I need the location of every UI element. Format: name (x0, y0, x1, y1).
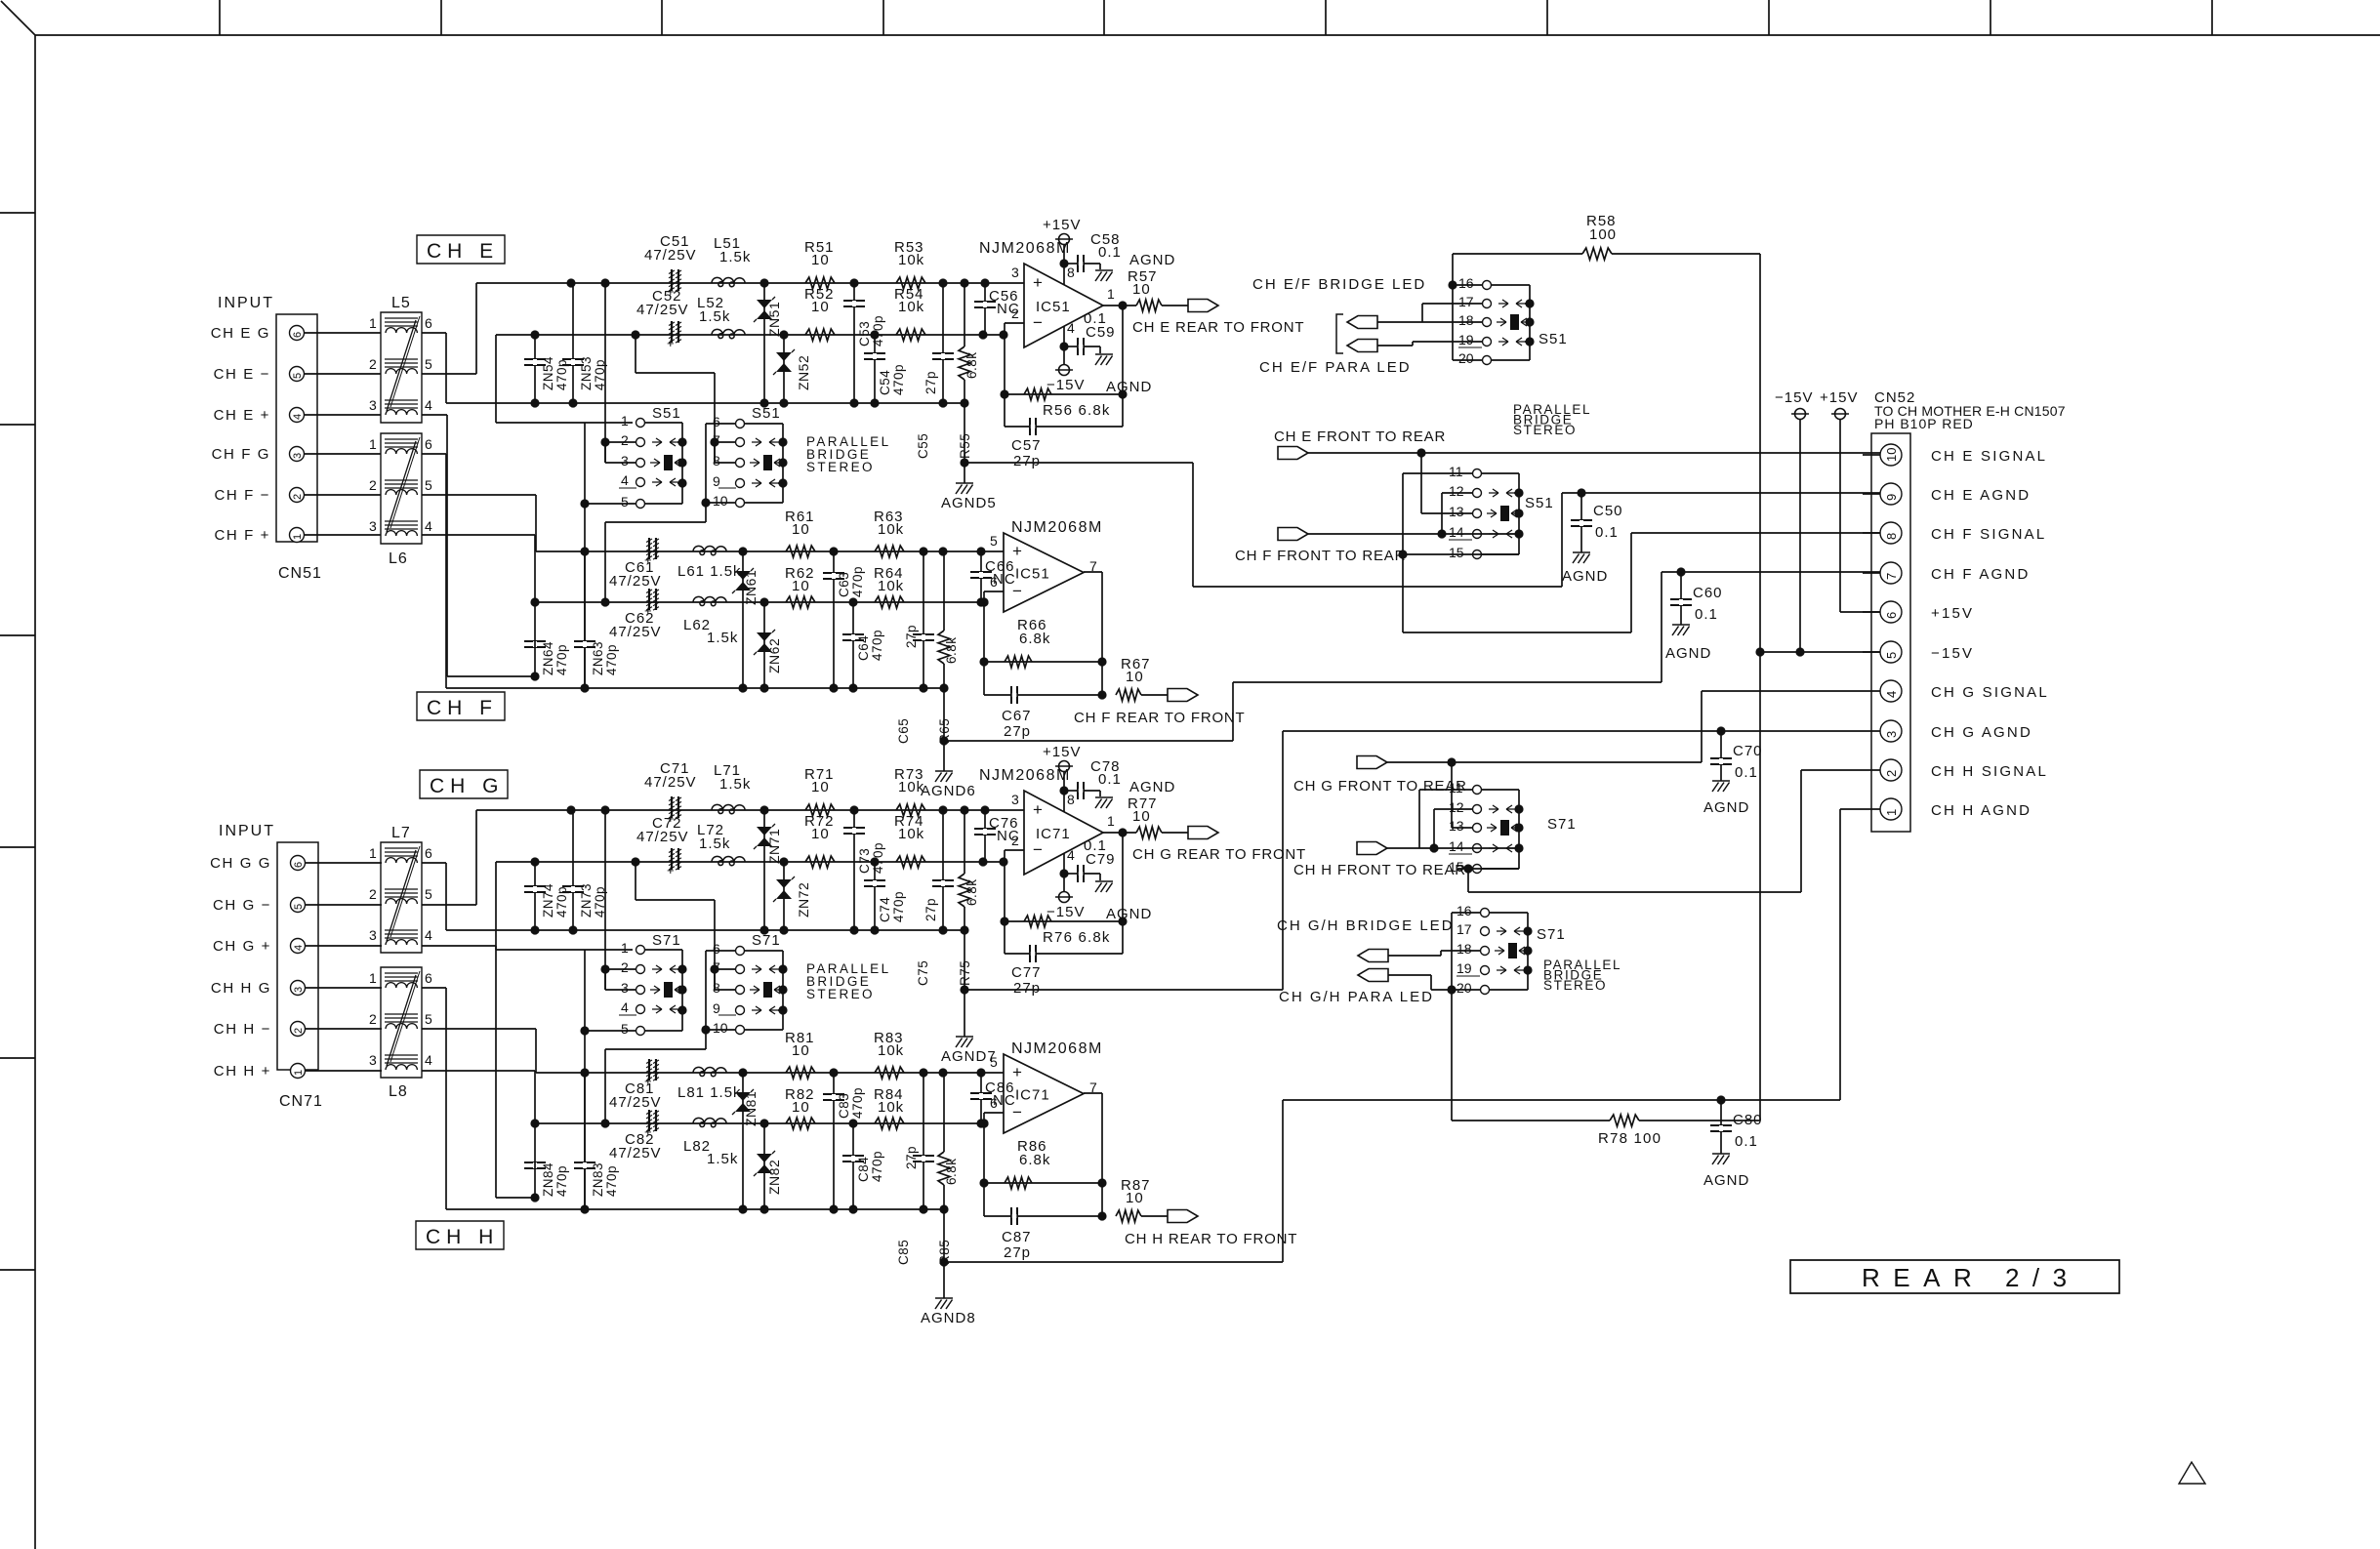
net flag CH G/H BRIDGE LED (1358, 950, 1388, 962)
svg-text:+: + (667, 336, 675, 350)
svg-text:470p: 470p (554, 359, 569, 390)
svg-text:10: 10 (792, 521, 810, 538)
S51 pin4 underline (619, 487, 636, 489)
resistor R85 (943, 1073, 945, 1152)
junctions ground bus (530, 925, 968, 934)
wire edge row2 (677, 441, 682, 443)
border tick (219, 0, 221, 35)
wire pin7 row (1662, 571, 1880, 573)
wire to pin8 CH F SIGNAL (1403, 533, 1880, 632)
svg-text:10: 10 (1132, 808, 1151, 825)
border tick (0, 1057, 35, 1059)
junction pin4 (1059, 869, 1068, 877)
resistor R52 (805, 329, 835, 341)
wire pin7 row (715, 441, 735, 443)
svg-text:1: 1 (292, 534, 304, 540)
wire to flag (1162, 305, 1188, 306)
wire +15V to pin6 (1840, 420, 1880, 612)
svg-text:CH H −: CH H − (214, 1021, 271, 1038)
svg-text:S71: S71 (1537, 926, 1566, 943)
svg-text:AGND: AGND (1129, 252, 1175, 268)
wire C78 to gnd (1084, 791, 1100, 796)
capacitor C52 (667, 321, 681, 350)
CN52 pin 10 (1880, 444, 1902, 466)
wire ground bus CH F (446, 687, 944, 689)
wire CN G pin to bus (422, 988, 446, 1209)
wire C53 (853, 283, 855, 403)
svg-text:1.5k: 1.5k (707, 630, 738, 646)
svg-text:INPUT: INPUT (218, 295, 274, 311)
resistor R77 (1136, 827, 1162, 838)
svg-text:13: 13 (1449, 504, 1464, 519)
switch S71 contacts 1-5 (636, 946, 685, 1036)
wire C70 leg (1720, 731, 1722, 781)
svg-text:CH F G: CH F G (212, 446, 270, 463)
wire CN pin6 to bus (422, 333, 446, 403)
zener pair ZN52 (773, 349, 795, 375)
wire bracket down to next block top rail (584, 1031, 586, 1209)
wire switch feed from top rail (604, 283, 606, 463)
svg-text:470p: 470p (871, 842, 885, 874)
wire switch bracket 6-10 (705, 951, 707, 1030)
svg-text:5: 5 (425, 886, 432, 902)
capacitor C56 (974, 301, 996, 308)
wire G/H bridge led flag (1388, 951, 1480, 956)
border frame top (35, 34, 2380, 36)
svg-text:9: 9 (713, 1000, 720, 1016)
wire mid rail CH G (496, 861, 1005, 863)
S51 pin14 underline (1449, 539, 1472, 541)
wire CN minus pin to top rail (422, 495, 536, 551)
svg-text:6.8k: 6.8k (1019, 1152, 1050, 1168)
svg-text:CH G +: CH G + (213, 938, 271, 955)
wire CN G pin to bus (422, 454, 446, 688)
svg-text:CH F SIGNAL: CH F SIGNAL (1931, 526, 2046, 543)
svg-text:5: 5 (293, 904, 305, 910)
S71 pin4 underline (619, 1014, 636, 1016)
junction output (1118, 828, 1127, 836)
power +15V terminal (1059, 234, 1070, 245)
wire pin2 row (605, 968, 636, 970)
ground AGND (1095, 354, 1113, 365)
svg-text:19: 19 (1458, 332, 1474, 347)
svg-text:5: 5 (990, 1054, 998, 1070)
wire +15V to pin8 (1063, 771, 1065, 812)
wire R76 row (1005, 920, 1123, 922)
svg-text:6: 6 (713, 941, 720, 957)
svg-text:C63: C63 (837, 572, 851, 597)
wire to AGND6 (943, 688, 945, 771)
svg-text:C60: C60 (1693, 585, 1723, 601)
zener pair ZN61 (732, 568, 754, 593)
CN71 pin 2 (291, 1022, 306, 1037)
svg-text:3: 3 (369, 518, 377, 534)
svg-text:−15V: −15V (1046, 904, 1085, 920)
svg-text:C67: C67 (1002, 708, 1032, 724)
svg-text:1: 1 (621, 413, 629, 428)
svg-text:S51: S51 (752, 405, 781, 422)
capacitor C80 (1710, 1124, 1732, 1132)
capacitor C70 (1710, 757, 1732, 765)
svg-text:3: 3 (369, 397, 377, 413)
svg-text:10k: 10k (898, 826, 924, 842)
wire row11 (1403, 472, 1472, 474)
wire pin2 row (605, 441, 636, 443)
wire ZN51 (763, 283, 765, 403)
resistor R87 (1116, 1210, 1141, 1222)
op-amp IC71 (NJM2068M) (990, 1054, 1097, 1133)
capacitor C72 (667, 848, 681, 877)
svg-text:CH G REAR TO FRONT: CH G REAR TO FRONT (1132, 846, 1306, 863)
svg-text:1: 1 (1884, 809, 1899, 816)
S71 pin19 underline (1457, 975, 1480, 977)
junction S71 fr edge (1514, 804, 1523, 852)
CN52 pin 1 (1880, 798, 1902, 820)
junction feedback left (979, 657, 988, 666)
svg-text:6.8k: 6.8k (944, 1158, 959, 1185)
connector CN52 (1871, 433, 1910, 832)
svg-text:11: 11 (1449, 464, 1463, 479)
resistor R84 (875, 1118, 904, 1129)
ground AGND (1095, 797, 1113, 808)
wire R78 row (1452, 990, 1610, 1121)
svg-text:6: 6 (1884, 612, 1899, 619)
svg-text:NJM2068M: NJM2068M (979, 240, 1071, 257)
svg-text:C74: C74 (878, 897, 892, 922)
svg-text:8: 8 (1067, 792, 1075, 807)
svg-text:CH G AGND: CH G AGND (1931, 724, 2032, 741)
wire rail2 to switch pin1 (496, 862, 633, 950)
resistor R58 (1582, 248, 1612, 260)
junction S71 led bracket (1447, 985, 1456, 994)
wire C87 row (984, 1215, 1102, 1217)
wire row12 jog (1442, 493, 1472, 534)
resistor R57 (1136, 300, 1162, 311)
svg-text:6: 6 (425, 315, 432, 331)
wire ZN53 (572, 283, 574, 403)
wire riser to upper-channel plus pin (422, 946, 535, 1198)
svg-text:15: 15 (1449, 545, 1464, 560)
svg-text:C59: C59 (1086, 324, 1116, 341)
svg-text:C57: C57 (1011, 437, 1042, 454)
wire R58 row (1453, 254, 1582, 285)
junction row14 S71 (1429, 843, 1438, 852)
ground AGND (C80) (1712, 1154, 1730, 1164)
svg-text:3: 3 (293, 987, 305, 993)
svg-text:−: − (1033, 313, 1043, 332)
switch S71 contacts 6-10 (736, 947, 785, 1035)
wire C58 to gnd (1084, 264, 1100, 269)
capacitor C79 (1077, 865, 1085, 882)
wire row15 (1403, 553, 1519, 555)
wire feedback left leg (1004, 335, 1005, 427)
resistor R83 (875, 1067, 904, 1079)
svg-text:0.1: 0.1 (1735, 1133, 1758, 1150)
svg-text:47/25V: 47/25V (609, 573, 662, 590)
wire -input jog (984, 591, 1004, 602)
svg-text:2: 2 (621, 959, 629, 975)
CN52 pin 8 (1880, 522, 1902, 544)
svg-text:CH E: CH E (427, 240, 499, 263)
wire CN52 pin stub (1863, 454, 1880, 456)
svg-text:5: 5 (1884, 652, 1899, 659)
svg-text:CH E FRONT TO REAR: CH E FRONT TO REAR (1274, 428, 1446, 445)
op-amp IC51 (NJM2068M) (1011, 264, 1115, 347)
wire C66 (980, 551, 982, 602)
svg-text:4: 4 (425, 927, 432, 943)
wire CN71 pin 1 (306, 1070, 383, 1072)
svg-text:6: 6 (293, 862, 305, 868)
junction C50 (1577, 488, 1585, 497)
capacitor C67 (1010, 686, 1018, 704)
svg-text:0.1: 0.1 (1098, 771, 1122, 788)
junctions ground bus (530, 398, 968, 407)
svg-text:10: 10 (792, 578, 810, 594)
junction fr edge (1514, 488, 1523, 538)
svg-text:27p: 27p (923, 371, 938, 394)
junction feedback left (1000, 917, 1008, 925)
wire CN51 pin 5 (305, 373, 382, 375)
block label box CH F (417, 692, 505, 720)
svg-text:5: 5 (425, 356, 432, 372)
svg-text:CH F AGND: CH F AGND (1931, 566, 2030, 583)
wire C83 (833, 1073, 835, 1209)
junction led bracket (1448, 280, 1457, 289)
junction output leg (1097, 1178, 1106, 1220)
svg-text:19: 19 (1457, 960, 1472, 976)
capacitor C87 (1010, 1207, 1018, 1225)
svg-text:L61 1.5k: L61 1.5k (677, 563, 742, 580)
svg-text:2: 2 (293, 1028, 305, 1034)
svg-text:STEREO: STEREO (806, 987, 875, 1001)
ground AGND6 (935, 771, 953, 782)
svg-text:20: 20 (1458, 350, 1474, 366)
resistor R72 (805, 856, 835, 868)
wire ZN62 (763, 602, 765, 688)
wire switch bracket 1-5 (584, 950, 586, 1031)
wire C67 row (984, 694, 1102, 696)
svg-text:3: 3 (369, 927, 377, 943)
connector CN51 (276, 314, 317, 542)
svg-text:AGND: AGND (1106, 379, 1152, 395)
resistor R61 (786, 546, 815, 557)
capacitor C51 (667, 269, 681, 299)
ground AGND (C50) (1573, 552, 1590, 563)
wire C73 (853, 810, 855, 930)
svg-text:27p: 27p (1013, 453, 1041, 469)
wire ZN54 (534, 335, 536, 403)
net flag CH E REAR TO FRONT (1188, 300, 1218, 312)
svg-text:IC51: IC51 (1036, 299, 1071, 315)
wire E AGND route (964, 463, 1562, 587)
wire mid rail CH F (535, 601, 984, 603)
svg-text:+: + (667, 863, 675, 877)
wire R58 to -15V rail (1612, 253, 1760, 255)
wire -15V to pin5 (1799, 420, 1801, 652)
border tick (1103, 0, 1105, 35)
svg-text:10: 10 (811, 826, 830, 842)
svg-text:5: 5 (621, 494, 629, 510)
inductor L61 (693, 546, 726, 554)
wire rail2 to group2 (636, 335, 715, 463)
svg-text:C54: C54 (878, 370, 892, 395)
svg-text:+15V: +15V (1820, 389, 1858, 406)
capacitor ZN54 (524, 358, 546, 366)
svg-text:14: 14 (1449, 838, 1464, 854)
svg-text:470p: 470p (554, 1165, 569, 1197)
wire g2 edge row9 (778, 482, 783, 484)
power -15V terminal (1059, 365, 1070, 376)
wire S71 led bracket (1431, 913, 1480, 990)
capacitor C50 (1571, 519, 1592, 527)
svg-text:10k: 10k (898, 299, 924, 315)
svg-text:AGND: AGND (1562, 568, 1608, 585)
wire pin7 row (715, 968, 735, 970)
junction S71 led edge (1523, 926, 1532, 974)
wire C84 (852, 1123, 854, 1209)
inductor L8 (common-mode choke) (381, 967, 422, 1078)
wire H FRONT line (1387, 847, 1519, 849)
wire CN minus pin to top rail (422, 1029, 536, 1073)
resistor R71 (805, 804, 835, 816)
svg-text:ZN73: ZN73 (579, 883, 594, 917)
wire R86 row (984, 1182, 1102, 1184)
svg-text:AGND6: AGND6 (921, 783, 976, 799)
wire pin3 row (605, 442, 636, 463)
CN71 pin 6 (291, 856, 306, 871)
inductor L5 (common-mode choke) (381, 312, 422, 423)
junction pin8 (1059, 786, 1068, 795)
junction AGND drop (960, 458, 968, 467)
wire feedback right leg (1122, 833, 1124, 954)
svg-text:L8: L8 (389, 1083, 408, 1100)
CN51 pin 2 (290, 488, 305, 503)
svg-text:CH G: CH G (430, 775, 505, 797)
wire C79 to gnd (1084, 874, 1100, 880)
wire rail2 to group2 (636, 862, 715, 990)
wire S71 row12 jog (1434, 809, 1472, 848)
border tick (0, 1269, 35, 1271)
capacitor C71 (667, 796, 681, 826)
wire bracket down to next block top rail (584, 504, 586, 688)
wire C64 (852, 602, 854, 688)
border frame corner diagonal (1, 1, 35, 35)
svg-text:7: 7 (1884, 573, 1899, 580)
wire S71 fr right edge (1482, 790, 1519, 869)
wire CN pin6 to bus (422, 863, 446, 930)
svg-text:CH E AGND: CH E AGND (1931, 487, 2031, 504)
junction output leg (1097, 657, 1106, 699)
wire ZN83 (584, 1073, 586, 1209)
CN51 pin 3 (290, 447, 305, 462)
junction minus jog (979, 597, 988, 606)
wire C65 (923, 551, 924, 688)
wire feedback right leg (1122, 306, 1124, 427)
wire CN51 pin 4 (305, 414, 382, 416)
wire ZN61 (742, 551, 744, 688)
border tick (1768, 0, 1770, 35)
svg-text:L6: L6 (389, 550, 408, 567)
svg-text:10: 10 (1126, 669, 1144, 685)
inductor L82 (693, 1118, 726, 1126)
svg-text:CN51: CN51 (278, 565, 322, 582)
svg-text:17: 17 (1457, 921, 1472, 937)
wire fr right edge (1482, 473, 1519, 554)
svg-text:NJM2068M: NJM2068M (1011, 519, 1103, 536)
wire C76 (984, 810, 986, 862)
wire ground bus CH G (446, 929, 964, 931)
wire CN52 pin stub (1863, 730, 1880, 732)
svg-text:470p: 470p (891, 891, 906, 922)
svg-text:NJM2068M: NJM2068M (1011, 1040, 1103, 1057)
wire CN52 pin stub (1863, 493, 1880, 495)
svg-text:CH E G: CH E G (211, 325, 270, 342)
wire CN52 pin stub (1863, 532, 1880, 534)
resistor R51 (805, 277, 835, 289)
svg-text:1: 1 (369, 436, 377, 452)
wire group1 right edge (645, 423, 682, 504)
wire CN51 pin 6 (305, 332, 382, 334)
junction group2 edge (778, 437, 787, 487)
svg-text:47/25V: 47/25V (644, 774, 697, 791)
wire G front to row13 (1452, 762, 1472, 828)
svg-text:470p: 470p (850, 566, 865, 597)
resistor R75 (964, 810, 965, 874)
junction bracket (580, 499, 589, 508)
junction feedback left (979, 1178, 988, 1187)
svg-text:CH F FRONT TO REAR: CH F FRONT TO REAR (1235, 548, 1406, 564)
capacitor ZN84 (524, 1162, 546, 1169)
svg-text:CN71: CN71 (279, 1093, 323, 1110)
svg-text:3: 3 (621, 453, 629, 469)
wire g2 edge row9 (778, 1009, 783, 1011)
junctions top rail (580, 1068, 985, 1077)
capacitor C55 (932, 352, 954, 360)
S71 pin9 underline (718, 1014, 736, 1016)
svg-text:20: 20 (1457, 980, 1472, 996)
svg-text:+: + (1033, 273, 1043, 292)
svg-text:10: 10 (811, 299, 830, 315)
wire ground bus CH H (446, 1208, 944, 1210)
svg-text:47/25V: 47/25V (636, 302, 689, 318)
resistor R66 (1005, 656, 1032, 668)
wire bridge led flag (1377, 304, 1482, 322)
junction feedback (1118, 917, 1127, 925)
svg-text:PH B10P RED: PH B10P RED (1874, 416, 1974, 431)
CN52 pin 6 (1880, 601, 1902, 623)
wire S71 row11 (1419, 789, 1472, 791)
svg-text:47/25V: 47/25V (609, 624, 662, 640)
ground AGND7 (956, 1037, 973, 1047)
power +15V terminal (1059, 761, 1070, 772)
svg-text:5: 5 (990, 533, 998, 549)
wire ground bus CH E (446, 402, 964, 404)
svg-text:16: 16 (1457, 903, 1472, 918)
wire to flag (1162, 832, 1188, 834)
svg-text:3: 3 (292, 453, 304, 459)
power +15V terminal (1835, 409, 1846, 420)
net flag CH F FRONT TO REAR (1278, 528, 1308, 541)
wire bracket2 down-left to next rail2 (605, 503, 706, 602)
wire pin5 row (585, 1030, 636, 1032)
svg-text:−15V: −15V (1775, 389, 1813, 406)
wire pin4 CH G SIGNAL (1702, 691, 1863, 762)
svg-text:ZN72: ZN72 (796, 882, 811, 917)
net flag CH E/F PARA LED (1347, 340, 1377, 352)
svg-text:6: 6 (292, 332, 304, 338)
junction -15V net (1755, 647, 1764, 656)
block label box CH G (420, 770, 508, 798)
